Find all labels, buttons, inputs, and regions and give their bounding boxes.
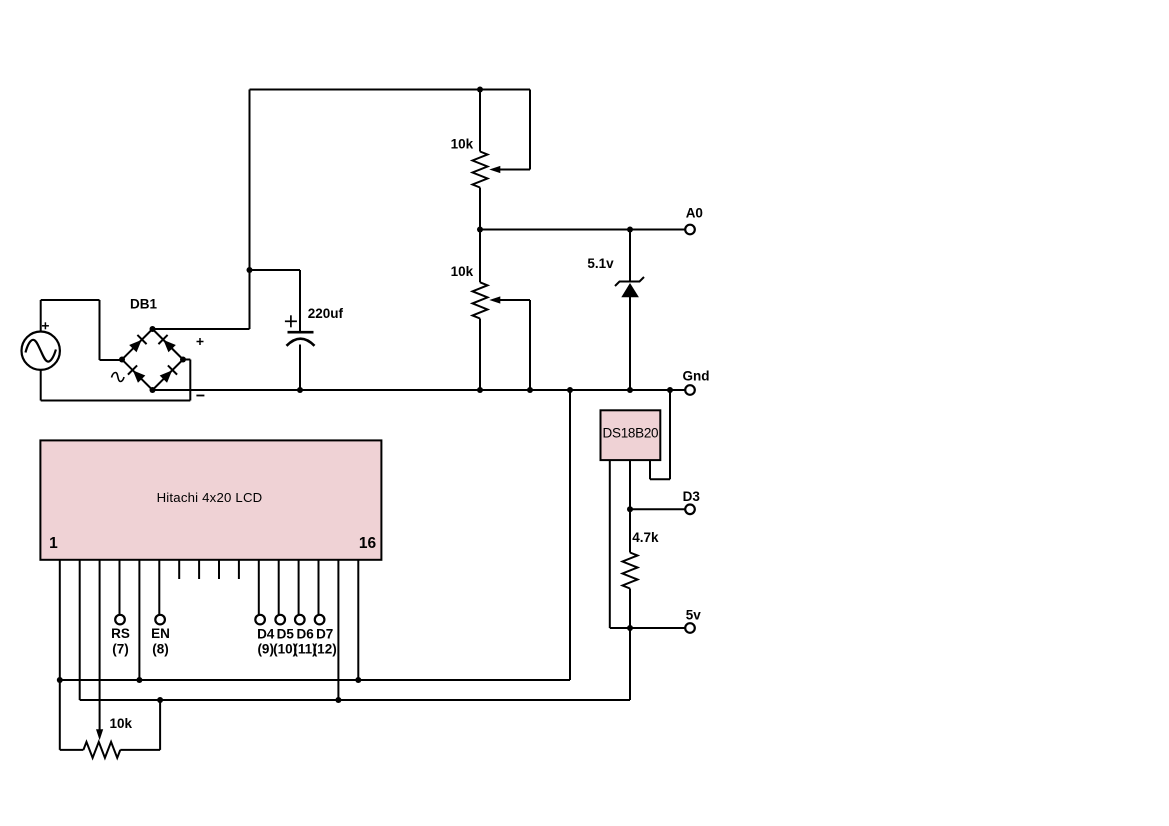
svg-text:220uf: 220uf bbox=[308, 306, 344, 321]
svg-text:10k: 10k bbox=[110, 716, 133, 731]
svg-text:D5: D5 bbox=[277, 626, 295, 641]
svg-text:Gnd: Gnd bbox=[683, 369, 710, 384]
svg-text:RS: RS bbox=[111, 626, 130, 641]
svg-text:5v: 5v bbox=[686, 608, 702, 623]
svg-text:(8): (8) bbox=[152, 642, 169, 657]
svg-text:10k: 10k bbox=[451, 264, 474, 279]
svg-text:DS18B20: DS18B20 bbox=[603, 425, 659, 440]
svg-text:DB1: DB1 bbox=[130, 297, 157, 312]
svg-text:5.1v: 5.1v bbox=[587, 256, 614, 271]
svg-text:4.7k: 4.7k bbox=[632, 530, 659, 545]
svg-text:16: 16 bbox=[359, 535, 377, 552]
svg-text:A0: A0 bbox=[686, 206, 703, 221]
svg-text:D3: D3 bbox=[683, 489, 701, 504]
svg-text:(9): (9) bbox=[257, 642, 274, 657]
svg-text:1: 1 bbox=[49, 535, 58, 552]
svg-text:Hitachi 4x20 LCD: Hitachi 4x20 LCD bbox=[157, 490, 263, 505]
svg-text:D7: D7 bbox=[316, 626, 333, 641]
svg-text:D4: D4 bbox=[257, 626, 275, 641]
svg-text:(7): (7) bbox=[112, 642, 129, 657]
svg-text:EN: EN bbox=[151, 626, 170, 641]
svg-text:10k: 10k bbox=[451, 137, 474, 152]
svg-text:(12): (12) bbox=[313, 642, 337, 657]
svg-text:D6: D6 bbox=[296, 626, 314, 641]
